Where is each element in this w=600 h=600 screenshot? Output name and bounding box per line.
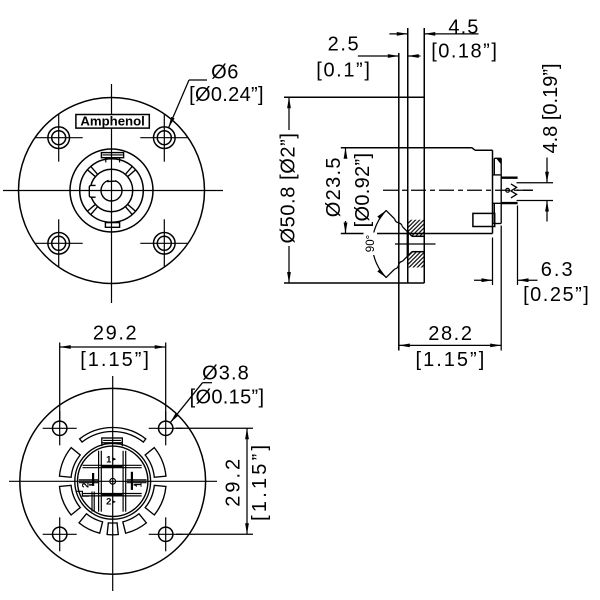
svg-text:6.3: 6.3 — [541, 259, 575, 281]
svg-text:4.8 [0.19”]: 4.8 [0.19”] — [540, 63, 562, 153]
svg-text:Ø3.8: Ø3.8 — [202, 362, 250, 384]
svg-text:Amphenol: Amphenol — [80, 114, 144, 129]
svg-text:[Ø0.15”]: [Ø0.15”] — [190, 387, 265, 409]
svg-text:[Ø0.24”]: [Ø0.24”] — [189, 84, 264, 106]
svg-text:Ø50.8 [Ø2”]: Ø50.8 [Ø2”] — [278, 132, 300, 243]
svg-text:[0.25”]: [0.25”] — [523, 284, 590, 306]
svg-text:2: 2 — [106, 497, 111, 508]
svg-text:28.2: 28.2 — [428, 323, 473, 345]
svg-text:90°: 90° — [365, 235, 377, 252]
svg-text:1: 1 — [106, 454, 112, 465]
svg-text:Ø23.5: Ø23.5 — [323, 156, 345, 217]
svg-text:[1.15”]: [1.15”] — [80, 349, 151, 371]
svg-text:[0.1”]: [0.1”] — [316, 59, 371, 81]
svg-text:4.5: 4.5 — [448, 17, 479, 39]
svg-text:[Ø0.92”]: [Ø0.92”] — [352, 153, 374, 228]
svg-text:[0.18”]: [0.18”] — [431, 40, 498, 62]
svg-text:[1.15”]: [1.15”] — [249, 442, 271, 521]
svg-text:[1.15”]: [1.15”] — [416, 349, 487, 371]
svg-text:2.5: 2.5 — [328, 33, 361, 55]
svg-text:Ø6: Ø6 — [211, 62, 239, 84]
svg-text:29.2: 29.2 — [223, 456, 245, 507]
svg-text:29.2: 29.2 — [93, 322, 138, 344]
